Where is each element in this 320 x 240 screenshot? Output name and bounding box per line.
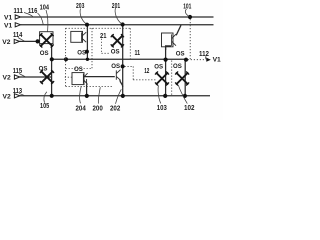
- svg-text:204: 204: [76, 106, 86, 113]
- svg-text:V2: V2: [3, 75, 12, 82]
- svg-text:V1: V1: [4, 22, 13, 29]
- svg-text:OS: OS: [39, 65, 48, 72]
- svg-text:V2: V2: [3, 93, 12, 100]
- svg-text:OS: OS: [40, 50, 49, 57]
- svg-text:OS: OS: [176, 51, 185, 58]
- svg-text:12: 12: [144, 68, 149, 75]
- svg-text:V1: V1: [4, 15, 13, 22]
- svg-text:OS: OS: [154, 63, 163, 70]
- svg-text:114: 114: [13, 32, 22, 39]
- svg-text:112: 112: [199, 51, 209, 58]
- svg-text:111: 111: [14, 8, 23, 15]
- svg-text:113: 113: [13, 88, 22, 95]
- svg-text:OS: OS: [77, 50, 86, 57]
- svg-text:203: 203: [76, 3, 84, 10]
- svg-text:200: 200: [93, 106, 103, 113]
- svg-text:OS: OS: [111, 63, 120, 70]
- svg-text:V2: V2: [2, 39, 11, 46]
- svg-text:105: 105: [40, 103, 49, 110]
- svg-text:104: 104: [40, 4, 49, 11]
- svg-text:V1: V1: [213, 56, 222, 63]
- svg-text:11: 11: [135, 50, 141, 57]
- svg-text:201: 201: [112, 3, 120, 10]
- svg-text:116: 116: [28, 8, 37, 15]
- svg-text:202: 202: [110, 106, 120, 113]
- svg-text:103: 103: [157, 105, 167, 112]
- svg-text:OS: OS: [74, 66, 83, 73]
- svg-text:OS: OS: [111, 48, 120, 55]
- svg-text:21: 21: [100, 33, 107, 40]
- svg-text:115: 115: [13, 68, 22, 75]
- svg-text:102: 102: [184, 105, 195, 112]
- svg-text:101: 101: [183, 3, 191, 10]
- svg-text:OS: OS: [173, 63, 182, 70]
